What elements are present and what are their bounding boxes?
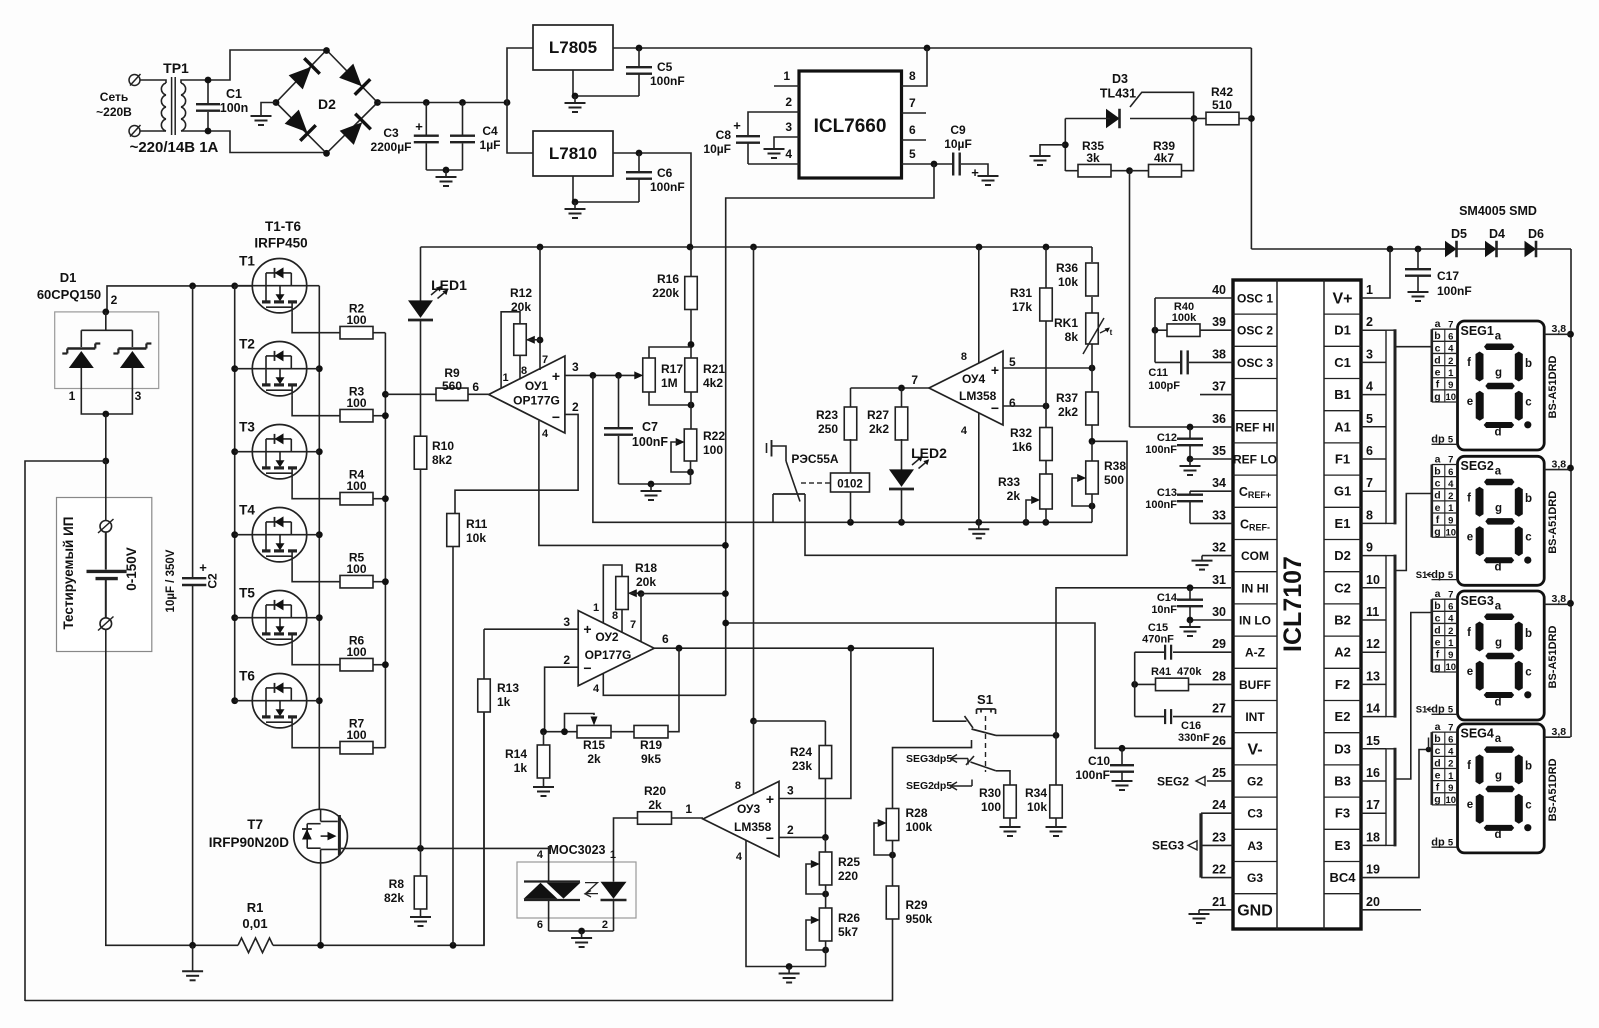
wire OU1 pin3	[565, 374, 639, 376]
svg-text:b: b	[1434, 600, 1440, 612]
svg-text:R19: R19	[640, 738, 662, 752]
svg-text:100: 100	[346, 728, 366, 742]
svg-text:7: 7	[1366, 476, 1373, 490]
svg-text:21: 21	[1212, 895, 1226, 909]
svg-text:C12: C12	[1157, 432, 1177, 444]
svg-text:16: 16	[1366, 766, 1380, 780]
svg-text:220: 220	[838, 869, 858, 883]
capacitor C15	[1164, 645, 1166, 660]
svg-text:9k5: 9k5	[641, 752, 661, 766]
svg-text:8k: 8k	[1065, 330, 1079, 344]
svg-text:2: 2	[787, 823, 794, 837]
svg-text:24: 24	[1212, 798, 1226, 812]
svg-text:IRFP90N20D: IRFP90N20D	[209, 835, 290, 850]
svg-text:T6: T6	[239, 669, 255, 684]
svg-text:10µF: 10µF	[944, 137, 972, 151]
svg-text:G3: G3	[1247, 871, 1263, 885]
svg-text:a: a	[1495, 733, 1502, 745]
potentiometer R25	[819, 852, 832, 885]
wire OU3 pin2	[779, 836, 825, 838]
svg-text:10k: 10k	[1027, 800, 1047, 814]
svg-text:LED2: LED2	[911, 445, 947, 461]
svg-text:+: +	[733, 118, 741, 133]
pin 30 INLO	[1190, 619, 1233, 621]
svg-text:37: 37	[1212, 380, 1226, 394]
svg-text:C7: C7	[642, 420, 658, 434]
wire LED1 to R10	[420, 320, 422, 437]
wire gate bus	[384, 333, 386, 748]
svg-text:2: 2	[1448, 759, 1453, 770]
svg-text:a: a	[1435, 721, 1441, 733]
svg-text:R34: R34	[1025, 786, 1047, 800]
wire seg1 feed	[1395, 346, 1432, 348]
svg-text:4: 4	[593, 683, 600, 695]
wire SEG3 supply	[1544, 603, 1570, 605]
svg-text:D6: D6	[1528, 227, 1544, 241]
svg-text:1M: 1M	[661, 376, 678, 390]
svg-text:6: 6	[1448, 332, 1453, 343]
svg-text:e: e	[1435, 502, 1441, 514]
svg-text:5: 5	[909, 147, 916, 161]
svg-text:6: 6	[1366, 444, 1373, 458]
pin 35 REFLO	[1190, 458, 1233, 460]
svg-text:ICL7660: ICL7660	[814, 116, 887, 137]
switch S1 dashes	[985, 716, 987, 772]
svg-text:6: 6	[537, 919, 543, 931]
wire secondary bottom	[208, 131, 327, 153]
svg-text:R9: R9	[444, 366, 460, 380]
svg-text:39: 39	[1212, 315, 1226, 329]
ground bridge minus	[261, 103, 276, 117]
svg-text:e: e	[1467, 799, 1473, 811]
svg-text:100: 100	[346, 645, 366, 659]
svg-text:b: b	[1525, 358, 1532, 370]
display SEG3 pin table	[1432, 598, 1458, 600]
svg-text:2k: 2k	[648, 798, 662, 812]
wire OU4 pin8	[978, 247, 980, 363]
transistor T6	[252, 674, 306, 728]
svg-text:−: −	[766, 830, 774, 846]
resistor R19	[634, 725, 668, 738]
capacitor C4	[462, 103, 464, 135]
svg-text:d: d	[1434, 624, 1440, 636]
wire S1 to INHI	[1056, 588, 1231, 736]
digit3 segment bus	[1386, 749, 1395, 846]
wire V- distribution	[726, 623, 1233, 748]
svg-text:20k: 20k	[511, 300, 531, 314]
resistor R31	[1045, 247, 1047, 288]
transistor T7	[294, 809, 348, 863]
pin 19 BC4	[1361, 750, 1432, 878]
display SEG2 pin table	[1432, 464, 1458, 466]
svg-text:R27: R27	[867, 408, 889, 422]
ground pin3 ICL7660	[773, 148, 775, 150]
resistor R20	[638, 812, 672, 825]
resistor R4	[340, 492, 373, 505]
wire R17 R21 bottom	[649, 392, 691, 405]
wire R28 feed	[893, 740, 972, 809]
svg-text:4: 4	[537, 849, 544, 861]
svg-text:c: c	[1525, 799, 1532, 811]
svg-text:a: a	[1495, 600, 1502, 612]
svg-text:+: +	[199, 560, 207, 575]
svg-text:C4: C4	[482, 124, 498, 138]
svg-text:R18: R18	[635, 561, 657, 575]
resistor R40	[1167, 324, 1200, 337]
svg-text:SEG3: SEG3	[1152, 839, 1184, 853]
wire rail 10V	[421, 246, 1093, 248]
svg-text:−: −	[552, 409, 560, 425]
svg-text:100nF: 100nF	[1145, 499, 1177, 511]
svg-text:G2: G2	[1247, 775, 1263, 789]
svg-text:17: 17	[1366, 798, 1380, 812]
svg-text:b: b	[1434, 733, 1440, 745]
svg-text:R1: R1	[247, 900, 264, 915]
wire bottom rail	[25, 919, 893, 1001]
svg-text:SEG2: SEG2	[1461, 459, 1494, 473]
ground L7810	[574, 202, 576, 209]
svg-text:100k: 100k	[1172, 312, 1197, 324]
svg-text:2k: 2k	[587, 752, 601, 766]
svg-text:3: 3	[563, 615, 570, 629]
pin 37 stub	[1200, 394, 1233, 396]
pin 8 ICL7660	[902, 48, 928, 86]
svg-text:2k2: 2k2	[869, 422, 889, 436]
wire OU4 out	[851, 387, 930, 389]
svg-text:9: 9	[1448, 783, 1453, 794]
svg-text:23k: 23k	[792, 759, 812, 773]
svg-text:D4: D4	[1489, 227, 1505, 241]
svg-text:c: c	[1435, 342, 1441, 354]
svg-text:COM: COM	[1241, 549, 1269, 563]
svg-text:R23: R23	[816, 408, 838, 422]
svg-text:8: 8	[909, 69, 916, 83]
wire OU1 pin3 to gnd rail	[593, 375, 1092, 522]
svg-text:d: d	[1494, 829, 1501, 841]
svg-text:23: 23	[1212, 830, 1226, 844]
pin 27 INT	[1173, 716, 1233, 718]
wire R18 wiper	[628, 592, 641, 594]
potentiometer R12	[514, 324, 527, 356]
svg-text:R13: R13	[497, 681, 519, 695]
wire L7805 gnd	[573, 70, 639, 96]
resistor R27	[901, 388, 903, 408]
svg-text:8: 8	[961, 351, 967, 363]
ground measure rail	[978, 522, 980, 529]
digit2 segment bus	[1386, 556, 1395, 717]
svg-text:D3: D3	[1112, 72, 1128, 86]
wire left outer loop	[25, 461, 106, 1001]
pin 7 ICL7660	[902, 112, 927, 114]
svg-text:11: 11	[1366, 605, 1379, 619]
pin 1 ICL7660	[774, 85, 799, 87]
wire display V+ rail	[1570, 249, 1572, 737]
svg-text:ICL7107: ICL7107	[1279, 556, 1307, 652]
svg-text:4: 4	[1448, 344, 1454, 355]
svg-text:B2: B2	[1334, 613, 1351, 628]
pin 21 GND	[1199, 909, 1233, 911]
resistor R36	[1091, 247, 1093, 262]
svg-text:g: g	[1495, 770, 1502, 782]
transistor T2	[252, 342, 306, 396]
svg-text:f: f	[1436, 782, 1440, 794]
svg-text:S1: S1	[1416, 570, 1428, 581]
svg-text:100: 100	[346, 396, 366, 410]
svg-text:36: 36	[1212, 412, 1226, 426]
svg-text:100nF: 100nF	[1145, 444, 1177, 456]
svg-text:1: 1	[69, 389, 76, 403]
svg-text:R37: R37	[1056, 391, 1078, 405]
svg-text:SEG1: SEG1	[1461, 324, 1494, 338]
svg-text:3,8: 3,8	[1552, 593, 1567, 605]
pin 36 REFHI	[1130, 426, 1234, 428]
svg-text:IN LO: IN LO	[1239, 614, 1271, 628]
wire L7805 out	[613, 47, 1251, 49]
svg-text:470nF: 470nF	[1142, 634, 1174, 646]
capacitor C9	[952, 153, 954, 176]
svg-text:10k: 10k	[1058, 275, 1078, 289]
svg-text:1k: 1k	[497, 695, 511, 709]
svg-text:10k: 10k	[466, 531, 486, 545]
wire OU3 pin8	[753, 247, 755, 721]
svg-text:470k: 470k	[1177, 666, 1202, 678]
seg3 bus bar	[1199, 813, 1202, 877]
svg-text:D1: D1	[1334, 323, 1351, 338]
svg-text:R36: R36	[1056, 261, 1078, 275]
pin 39 OSC2	[1200, 329, 1233, 331]
svg-text:g: g	[1495, 637, 1502, 649]
potentiometer R18	[616, 577, 629, 610]
svg-text:REF LO: REF LO	[1233, 453, 1277, 467]
svg-text:d: d	[1434, 757, 1440, 769]
svg-text:b: b	[1525, 493, 1532, 505]
svg-text:d: d	[1494, 696, 1501, 708]
svg-text:e: e	[1467, 666, 1473, 678]
svg-text:1: 1	[593, 602, 599, 614]
resistor R30	[1004, 785, 1017, 818]
diode D4	[1485, 241, 1497, 258]
resistor R1 shunt	[193, 944, 238, 946]
ground C7	[650, 484, 652, 491]
svg-text:SEG3: SEG3	[906, 753, 934, 765]
svg-text:BS-A51DRD: BS-A51DRD	[1547, 355, 1559, 418]
svg-text:SEG2: SEG2	[1157, 775, 1189, 789]
svg-text:2: 2	[572, 400, 579, 414]
svg-text:250: 250	[818, 422, 838, 436]
svg-text:2: 2	[602, 919, 608, 931]
capacitor C7	[618, 375, 620, 427]
svg-text:7: 7	[1448, 319, 1453, 330]
svg-text:1k6: 1k6	[1012, 440, 1032, 454]
svg-text:2: 2	[1448, 491, 1453, 502]
svg-text:4: 4	[961, 425, 968, 437]
led LED1	[408, 300, 433, 318]
display SEG4	[1458, 724, 1545, 853]
svg-text:SEG2: SEG2	[906, 780, 934, 792]
digit1 segment bus	[1386, 330, 1395, 523]
svg-text:25: 25	[1212, 766, 1226, 780]
svg-text:6: 6	[472, 380, 479, 394]
optocoupler MOC3023	[517, 862, 636, 918]
svg-text:10: 10	[1446, 527, 1457, 538]
resistor R42	[1206, 112, 1239, 125]
svg-text:Тестируемый ИП: Тестируемый ИП	[61, 516, 76, 629]
box tested PSU	[57, 498, 152, 652]
ground R14	[543, 786, 545, 788]
wire C3 C4 join	[426, 169, 462, 171]
svg-text:100nF: 100nF	[650, 74, 685, 88]
wire gate T5	[292, 645, 340, 665]
svg-text:R12: R12	[510, 286, 532, 300]
wire R17 R21 top	[649, 347, 691, 358]
ground C3 C4	[445, 170, 447, 177]
wire T1 leads	[235, 285, 253, 287]
svg-text:d: d	[1494, 562, 1501, 574]
svg-text:6: 6	[1448, 734, 1453, 745]
capacitor C12	[1189, 427, 1191, 438]
svg-text:10µF: 10µF	[703, 142, 731, 156]
svg-text:100nF: 100nF	[1437, 284, 1472, 298]
svg-text:f: f	[1436, 649, 1440, 661]
op-amp U1 OP177G	[489, 356, 565, 433]
svg-text:4k2: 4k2	[703, 376, 723, 390]
display SEG1 pin table	[1432, 328, 1458, 330]
transistor T1	[252, 259, 306, 313]
svg-text:34: 34	[1212, 476, 1226, 490]
resistor R7	[340, 741, 373, 754]
svg-text:9: 9	[1366, 541, 1373, 555]
resistor R41	[1156, 678, 1189, 691]
wire T7 gate line	[421, 847, 549, 849]
pin 34 CREF+	[1190, 490, 1233, 492]
diode D5	[1445, 241, 1457, 258]
pin 25 G2	[1207, 780, 1233, 782]
svg-text:100: 100	[346, 479, 366, 493]
svg-text:R22: R22	[703, 429, 725, 443]
transistor T5	[252, 591, 306, 645]
potentiometer R28	[886, 809, 899, 841]
pin 29 A-Z	[1173, 651, 1233, 653]
svg-text:+: +	[415, 119, 423, 134]
svg-text:OP177G: OP177G	[513, 394, 560, 408]
display SEG4 pin table	[1432, 731, 1458, 733]
svg-text:C3: C3	[1247, 807, 1263, 821]
svg-text:C10: C10	[1088, 754, 1110, 768]
svg-text:R8: R8	[389, 877, 405, 891]
svg-text:f: f	[1467, 492, 1471, 504]
pin 1 V+	[1361, 249, 1390, 298]
svg-text:C9: C9	[950, 123, 966, 137]
svg-text:~220В: ~220В	[96, 105, 132, 119]
svg-text:R41: R41	[1151, 666, 1171, 678]
wire secondary top	[208, 50, 327, 80]
svg-text:F2: F2	[1335, 677, 1350, 692]
svg-text:2: 2	[563, 653, 570, 667]
svg-text:1: 1	[1448, 503, 1454, 514]
svg-text:INT: INT	[1245, 710, 1265, 724]
svg-text:6: 6	[909, 123, 916, 137]
svg-text:9: 9	[1448, 380, 1453, 391]
svg-text:d: d	[1434, 490, 1440, 502]
svg-text:R33: R33	[998, 475, 1020, 489]
svg-text:2: 2	[1448, 356, 1453, 367]
wire T left rail	[234, 286, 236, 701]
diode D2 top-left	[288, 58, 320, 90]
svg-text:MOC3023: MOC3023	[549, 843, 606, 857]
svg-text:SEG3: SEG3	[1461, 594, 1494, 608]
svg-text:d: d	[1434, 354, 1440, 366]
svg-text:R17: R17	[661, 362, 683, 376]
ground C2 bottom	[192, 945, 194, 971]
svg-text:REF HI: REF HI	[1235, 420, 1274, 434]
ground R34	[1055, 826, 1057, 828]
svg-text:c: c	[1435, 612, 1441, 624]
wire SEG1 supply	[1544, 333, 1570, 335]
svg-text:560: 560	[442, 379, 462, 393]
svg-text:D1: D1	[60, 270, 77, 285]
wire SEG4 supply	[1544, 736, 1570, 738]
wire T drain bus	[318, 286, 320, 810]
svg-text:b: b	[1434, 465, 1440, 477]
svg-text:R25: R25	[838, 855, 860, 869]
svg-text:T1: T1	[239, 254, 255, 269]
bridge rectifier D2 frame	[276, 50, 378, 153]
svg-text:D3: D3	[1334, 741, 1351, 756]
svg-text:g: g	[1495, 367, 1502, 379]
svg-text:SM4005 SMD: SM4005 SMD	[1459, 204, 1537, 218]
capacitor C3	[425, 103, 427, 135]
wire T6 leads	[235, 700, 253, 702]
svg-text:33: 33	[1212, 508, 1226, 522]
regulator L7810	[533, 131, 613, 176]
svg-text:8: 8	[735, 780, 741, 792]
wire OU4 pin6	[1003, 405, 1046, 407]
wire D1 anodes join	[81, 389, 132, 415]
pin 33 CREF-	[1190, 522, 1233, 524]
svg-text:R26: R26	[838, 911, 860, 925]
svg-text:c: c	[1435, 745, 1441, 757]
svg-text:g: g	[1434, 794, 1440, 806]
svg-text:R14: R14	[505, 747, 527, 761]
pin 28 BUFF	[1189, 683, 1233, 685]
switch S1 pole2	[966, 756, 974, 765]
svg-text:b: b	[1525, 761, 1532, 773]
svg-text:C6: C6	[657, 166, 673, 180]
svg-text:a: a	[1495, 466, 1502, 478]
ground R30	[1009, 826, 1011, 828]
resistor R3	[340, 409, 373, 422]
svg-text:SEG4: SEG4	[1461, 727, 1494, 741]
svg-text:b: b	[1525, 628, 1532, 640]
svg-text:e: e	[1435, 637, 1441, 649]
svg-text:L7805: L7805	[549, 38, 597, 57]
wire LED1 anode	[420, 247, 422, 301]
svg-text:14: 14	[1366, 702, 1380, 716]
svg-text:3,8: 3,8	[1552, 458, 1567, 470]
svg-text:C2: C2	[1334, 580, 1351, 595]
svg-text:6: 6	[1009, 396, 1016, 410]
svg-text:330nF: 330nF	[1178, 732, 1210, 744]
svg-text:D5: D5	[1451, 227, 1467, 241]
potentiometer R33	[1040, 474, 1053, 509]
svg-text:2: 2	[111, 293, 118, 307]
switch S1 pole1	[965, 716, 974, 728]
potentiometer R26	[819, 908, 832, 941]
svg-text:D2: D2	[1334, 548, 1351, 563]
svg-text:4: 4	[1448, 747, 1454, 758]
svg-text:6: 6	[1448, 602, 1453, 613]
capacitor C8	[736, 135, 760, 137]
